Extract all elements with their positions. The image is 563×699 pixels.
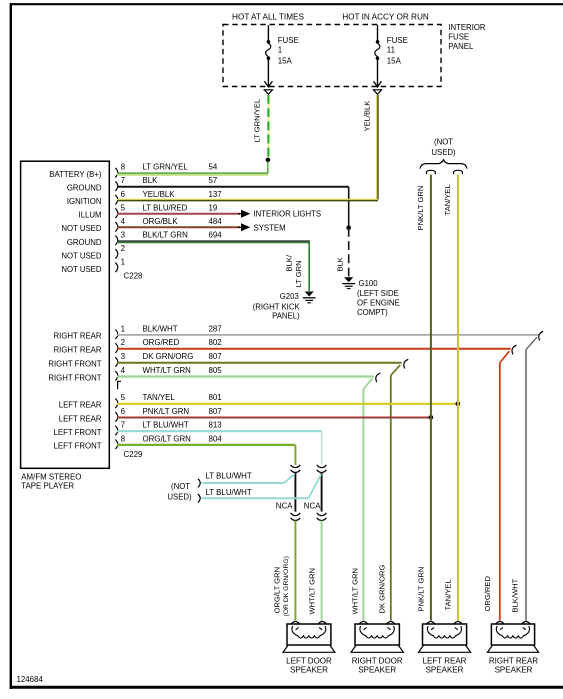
svg-text:C228: C228 [124, 272, 143, 281]
svg-text:SPEAKER: SPEAKER [426, 666, 464, 675]
svg-text:15A: 15A [278, 56, 293, 65]
svg-text:8: 8 [121, 163, 126, 172]
svg-text:6: 6 [121, 407, 126, 416]
svg-text:AM/FM STEREO: AM/FM STEREO [21, 472, 81, 481]
svg-text:BLK/LT GRN: BLK/LT GRN [143, 230, 189, 239]
svg-text:802: 802 [209, 338, 222, 347]
svg-text:15A: 15A [387, 56, 402, 65]
svg-text:TAN/YEL: TAN/YEL [443, 184, 452, 215]
svg-text:PANEL): PANEL) [272, 312, 300, 321]
svg-text:IGNITION: IGNITION [67, 197, 102, 206]
svg-text:BLK/WHT: BLK/WHT [511, 578, 520, 612]
svg-text:WHT/LT GRN: WHT/LT GRN [350, 568, 359, 615]
svg-text:694: 694 [209, 230, 223, 239]
svg-text:INTERIOR LIGHTS: INTERIOR LIGHTS [254, 210, 322, 219]
svg-text:7: 7 [121, 421, 125, 430]
svg-text:54: 54 [209, 163, 218, 172]
svg-text:LT BLU/RED: LT BLU/RED [143, 203, 188, 212]
svg-text:LEFT FRONT: LEFT FRONT [54, 428, 102, 437]
svg-text:BATTERY (B+): BATTERY (B+) [49, 170, 102, 179]
svg-text:GROUND: GROUND [67, 238, 102, 247]
svg-text:ORG/LT GRN: ORG/LT GRN [143, 434, 192, 443]
svg-text:NCA: NCA [276, 501, 293, 510]
svg-text:INTERIOR: INTERIOR [448, 23, 486, 32]
svg-text:ORG/RED: ORG/RED [483, 576, 492, 612]
svg-text:2: 2 [121, 338, 125, 347]
svg-text:4: 4 [121, 217, 126, 226]
svg-text:1: 1 [278, 46, 282, 55]
svg-text:BLK/: BLK/ [285, 254, 294, 271]
svg-text:LT BLU/WHT: LT BLU/WHT [206, 488, 252, 497]
svg-text:(RIGHT KICK: (RIGHT KICK [253, 302, 301, 311]
svg-text:PNK/LT GRN: PNK/LT GRN [416, 186, 425, 231]
svg-text:C229: C229 [124, 450, 143, 459]
svg-text:ORG/RED: ORG/RED [143, 338, 180, 347]
svg-text:57: 57 [209, 176, 218, 185]
svg-text:805: 805 [209, 366, 223, 375]
svg-text:7: 7 [121, 176, 125, 185]
svg-text:LEFT REAR: LEFT REAR [423, 656, 467, 665]
svg-text:LT GRN/YEL: LT GRN/YEL [143, 163, 189, 172]
svg-text:BLK: BLK [336, 257, 345, 271]
svg-text:NOT USED: NOT USED [61, 265, 102, 274]
svg-text:804: 804 [209, 434, 223, 443]
svg-text:RIGHT REAR: RIGHT REAR [54, 332, 102, 341]
svg-text:PNK/LT GRN: PNK/LT GRN [143, 407, 190, 416]
svg-text:SPEAKER: SPEAKER [358, 666, 396, 675]
svg-text:124684: 124684 [17, 675, 44, 684]
svg-text:SPEAKER: SPEAKER [495, 666, 533, 675]
svg-text:BLK/WHT: BLK/WHT [143, 324, 178, 333]
svg-text:ILLUM: ILLUM [79, 211, 102, 220]
svg-text:SPEAKER: SPEAKER [290, 666, 328, 675]
svg-text:LT GRN/YEL: LT GRN/YEL [253, 99, 262, 143]
svg-text:3: 3 [121, 352, 126, 361]
svg-text:ORG/BLK: ORG/BLK [143, 217, 179, 226]
svg-text:RIGHT REAR: RIGHT REAR [54, 346, 102, 355]
svg-text:G203: G203 [280, 292, 299, 301]
svg-text:2: 2 [121, 244, 125, 253]
svg-text:LEFT REAR: LEFT REAR [59, 414, 102, 423]
svg-text:4: 4 [121, 366, 126, 375]
svg-text:(NOT: (NOT [171, 482, 190, 491]
svg-text:USED): USED) [167, 492, 192, 501]
svg-text:NCA: NCA [304, 501, 321, 510]
svg-text:PANEL: PANEL [448, 42, 474, 51]
svg-text:LEFT REAR: LEFT REAR [59, 401, 102, 410]
svg-text:287: 287 [209, 324, 222, 333]
svg-text:FUSE: FUSE [448, 32, 469, 41]
svg-text:801: 801 [209, 393, 222, 402]
svg-text:G100: G100 [359, 279, 379, 288]
svg-text:NOT USED: NOT USED [61, 251, 102, 260]
svg-text:LT BLU/WHT: LT BLU/WHT [206, 471, 252, 480]
svg-text:RIGHT REAR: RIGHT REAR [489, 656, 538, 665]
svg-text:RIGHT FRONT: RIGHT FRONT [48, 359, 101, 368]
svg-text:(OR DK GRN/ORG): (OR DK GRN/ORG) [283, 556, 290, 616]
svg-text:FUSE: FUSE [278, 36, 299, 45]
svg-text:PNK/LT GRN: PNK/LT GRN [417, 567, 426, 612]
svg-text:11: 11 [387, 46, 395, 55]
svg-text:807: 807 [209, 352, 222, 361]
svg-text:GROUND: GROUND [67, 184, 102, 193]
svg-text:SYSTEM: SYSTEM [254, 224, 286, 233]
svg-text:YEL/BLK: YEL/BLK [143, 190, 176, 199]
svg-text:(NOT: (NOT [434, 137, 453, 146]
svg-text:ORG/LT GRN: ORG/LT GRN [273, 567, 282, 614]
svg-text:USED): USED) [431, 148, 456, 157]
svg-text:3: 3 [121, 230, 126, 239]
svg-text:1: 1 [121, 257, 125, 266]
svg-text:LT BLU/WHT: LT BLU/WHT [143, 421, 189, 430]
svg-text:NOT USED: NOT USED [61, 224, 102, 233]
svg-text:(LEFT SIDE: (LEFT SIDE [357, 289, 399, 298]
svg-text:LEFT FRONT: LEFT FRONT [54, 442, 102, 451]
svg-text:1: 1 [121, 324, 125, 333]
svg-text:HOT IN ACCY OR RUN: HOT IN ACCY OR RUN [342, 12, 429, 21]
svg-text:BLK: BLK [143, 176, 159, 185]
svg-text:807: 807 [209, 407, 222, 416]
svg-text:8: 8 [121, 434, 126, 443]
svg-text:YEL/BLK: YEL/BLK [363, 101, 372, 132]
svg-text:TAN/YEL: TAN/YEL [443, 579, 452, 610]
svg-text:5: 5 [121, 393, 126, 402]
svg-text:RIGHT FRONT: RIGHT FRONT [48, 373, 101, 382]
svg-text:137: 137 [209, 190, 222, 199]
svg-text:DK GRN/ORG: DK GRN/ORG [143, 352, 194, 361]
svg-text:FUSE: FUSE [387, 36, 408, 45]
svg-text:5: 5 [121, 203, 126, 212]
svg-text:OF ENGINE: OF ENGINE [357, 299, 400, 308]
svg-text:WHT/LT GRN: WHT/LT GRN [143, 366, 192, 375]
svg-text:TAN/YEL: TAN/YEL [143, 393, 176, 402]
svg-text:RIGHT DOOR: RIGHT DOOR [352, 656, 403, 665]
svg-text:LEFT DOOR: LEFT DOOR [286, 656, 332, 665]
svg-text:484: 484 [209, 217, 223, 226]
svg-text:COMPT): COMPT) [357, 308, 388, 317]
svg-text:HOT AT ALL TIMES: HOT AT ALL TIMES [232, 12, 304, 21]
svg-text:19: 19 [209, 203, 218, 212]
svg-text:813: 813 [209, 421, 223, 430]
svg-text:DK GRN/ORG: DK GRN/ORG [378, 564, 387, 613]
svg-text:WHT/LT GRN: WHT/LT GRN [307, 568, 316, 615]
svg-text:6: 6 [121, 190, 126, 199]
svg-text:TAPE PLAYER: TAPE PLAYER [21, 482, 74, 491]
svg-text:LT GRN: LT GRN [294, 260, 303, 287]
